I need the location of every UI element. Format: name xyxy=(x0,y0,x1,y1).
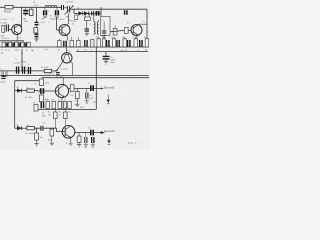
svg-text:C₁₆0,25: C₁₆0,25 xyxy=(60,68,68,70)
capacitor C12 dark xyxy=(23,67,25,74)
svg-text:C₁₂: C₁₂ xyxy=(5,50,8,52)
transistor T5 xyxy=(131,25,142,36)
svg-text:4700: 4700 xyxy=(21,61,27,63)
capacitor under C20 dark xyxy=(41,102,43,108)
svg-text:Б₂₂: Б₂₂ xyxy=(58,99,61,101)
svg-text:R₂120к: R₂120к xyxy=(0,23,7,25)
capacitor C14 dark xyxy=(28,67,30,74)
resistor R29 xyxy=(27,127,35,130)
capacitor chain dark upper xyxy=(35,22,39,24)
svg-text:C₁₃: C₁₃ xyxy=(102,37,105,39)
svg-text:L₆: L₆ xyxy=(1,69,3,71)
resistor R25 xyxy=(75,92,79,99)
wire T5 emitter xyxy=(136,35,139,39)
svg-text:C₄: C₄ xyxy=(49,22,52,24)
capacitor row r7 dark xyxy=(117,40,119,47)
ground C3a xyxy=(43,16,47,17)
wire L1 right down xyxy=(56,7,58,10)
rail 2 xyxy=(76,51,148,53)
svg-text:T₁: T₁ xyxy=(12,19,14,21)
capacitor C16 xyxy=(56,73,60,75)
wire T4 emitter down xyxy=(61,98,63,110)
wire T2 collector up xyxy=(66,13,69,25)
capacitor IF in box xyxy=(102,31,106,33)
resistor detector load xyxy=(84,17,90,20)
ground IF box xyxy=(102,33,106,38)
svg-text:R₃1к: R₃1к xyxy=(2,38,7,40)
wire C17 stub xyxy=(105,52,107,56)
resistor bottom row 2 xyxy=(52,101,56,108)
ground R31 xyxy=(35,140,39,146)
svg-text:5к: 5к xyxy=(59,114,61,116)
capacitor C3a dark xyxy=(44,10,47,15)
paper scan noise xyxy=(0,0,150,150)
svg-text:C₅6÷25: C₅6÷25 xyxy=(66,1,74,4)
svg-text:4,7к: 4,7к xyxy=(34,5,38,7)
transistor T1 xyxy=(12,25,22,35)
svg-text:4,7к: 4,7к xyxy=(75,101,79,103)
resistor R33 xyxy=(50,129,54,136)
capacitor C31 xyxy=(41,126,43,131)
resistor row L4 xyxy=(21,42,24,47)
capacitor C3b dark xyxy=(56,10,59,15)
resistor R31 xyxy=(35,133,39,140)
svg-text:C₅: C₅ xyxy=(7,38,10,40)
capacitor C17 dark xyxy=(103,56,110,59)
capacitor row r11 dark xyxy=(140,40,142,47)
wire T5 base xyxy=(110,30,131,31)
wire T5 collector xyxy=(138,23,147,26)
svg-text:Выход1: Выход1 xyxy=(104,86,115,90)
resistor R7 small xyxy=(75,15,78,20)
resistor R3 xyxy=(30,9,34,15)
svg-text:4,7к: 4,7к xyxy=(44,49,48,51)
resistor bottom row 4 dark xyxy=(63,101,66,108)
wire top rail left xyxy=(0,6,62,8)
svg-text:C₁0,02: C₁0,02 xyxy=(0,19,7,21)
svg-text:мкФ: мкФ xyxy=(110,61,114,64)
ground C33 xyxy=(91,143,95,147)
capacitor row L dark c xyxy=(19,43,20,47)
svg-text:Выход2: Выход2 xyxy=(104,129,115,133)
capacitor C33 dark xyxy=(92,137,94,143)
resistor row r2 xyxy=(91,40,95,47)
wire T3 collector down xyxy=(70,61,73,76)
ground arrow output2 xyxy=(108,138,110,141)
capacitor C32 xyxy=(85,137,87,143)
box left edge xyxy=(14,81,16,129)
svg-text:100к: 100к xyxy=(50,18,55,20)
ground C17 xyxy=(104,59,108,64)
transistor T3 xyxy=(62,53,72,63)
wire R21 to C20 xyxy=(34,90,40,92)
resistor below C20 xyxy=(39,95,43,102)
wire IF winding top xyxy=(93,13,95,21)
svg-text:T₆: T₆ xyxy=(66,143,68,145)
inductor L1 coil xyxy=(45,5,57,7)
svg-text:R₂₂: R₂₂ xyxy=(33,102,36,104)
resistor R23 xyxy=(70,85,74,92)
wire R3 stub xyxy=(30,7,32,9)
wire junction R31 xyxy=(34,128,40,133)
svg-text:10к: 10к xyxy=(48,114,51,116)
svg-text:R₄: R₄ xyxy=(1,50,4,52)
svg-text:R₁₆: R₁₆ xyxy=(122,37,125,39)
capacitor IF left dark xyxy=(85,29,89,31)
arrow output 1 xyxy=(101,88,104,90)
capacitor row r1 dark xyxy=(85,40,87,47)
resistor row r10 xyxy=(134,39,137,47)
bus line 1 xyxy=(0,74,149,76)
svg-text:C₆: C₆ xyxy=(143,21,146,23)
svg-text:15к: 15к xyxy=(39,137,42,139)
svg-text:C₂₆: C₂₆ xyxy=(89,95,92,97)
resistor base T5 inline xyxy=(124,27,128,33)
node dots on emitter rail xyxy=(6,40,7,41)
transistor T6 xyxy=(62,126,75,139)
svg-text:10к: 10к xyxy=(51,99,54,101)
inductor IF winding 1 xyxy=(94,21,95,34)
wire row stubs right xyxy=(99,37,136,39)
svg-text:R₂₉: R₂₉ xyxy=(27,125,30,127)
svg-text:Д₁: Д₁ xyxy=(77,8,79,10)
wire T1 emitter down xyxy=(17,34,18,41)
wire L5 vertical xyxy=(21,49,23,71)
resistor bottom row 5 xyxy=(68,101,71,108)
capacitor C2 dark xyxy=(23,11,28,14)
wire T2 emitter down xyxy=(66,35,67,41)
resistor R1 xyxy=(5,6,13,9)
node junction top xyxy=(21,7,22,8)
wire IF cap left drop xyxy=(86,20,88,28)
svg-text:R₅: R₅ xyxy=(26,50,29,52)
resistor T2 row a xyxy=(58,41,62,48)
capacitor detector dark xyxy=(96,11,98,16)
resistor R30 xyxy=(54,112,58,119)
box top edge xyxy=(15,80,42,82)
resistor row L1 xyxy=(2,42,5,47)
variable capacitor C5 xyxy=(67,6,69,13)
wire detector tap xyxy=(73,9,75,13)
resistor T2 row c xyxy=(77,41,81,48)
svg-text:R₁₇: R₁₇ xyxy=(27,87,30,89)
capacitor C1 xyxy=(6,25,8,32)
wire emitter rail xyxy=(0,40,24,42)
svg-text:L₅: L₅ xyxy=(15,59,17,61)
capacitor T2 row dark xyxy=(64,41,66,47)
svg-text:4700: 4700 xyxy=(110,59,116,61)
ground C26 xyxy=(85,99,89,104)
capacitor C24 dark xyxy=(91,85,93,91)
resistor row r12 xyxy=(145,39,148,47)
capacitor chain dark lower xyxy=(35,34,39,36)
wire T4 collector right xyxy=(69,88,101,90)
svg-text:R₁₃: R₁₃ xyxy=(66,50,69,52)
wire C31 to T6 xyxy=(43,128,65,131)
wire detector line xyxy=(74,12,101,14)
resistor row L5 xyxy=(27,42,30,47)
svg-text:C₈: C₈ xyxy=(102,19,105,21)
svg-text:C₁₆: C₁₆ xyxy=(137,50,140,52)
ground R32 xyxy=(77,142,81,147)
svg-text:C₁₇: C₁₇ xyxy=(110,56,113,58)
svg-text:C₉180: C₉180 xyxy=(14,62,21,64)
svg-text:R₂₉а470к: R₂₉а470к xyxy=(25,133,34,135)
inductor L6 box xyxy=(2,71,7,76)
wire resistor stubs xyxy=(41,94,43,110)
svg-text:R₁₈: R₁₈ xyxy=(126,50,129,52)
svg-text:L₄: L₄ xyxy=(90,23,92,25)
resistor R2 edge xyxy=(2,25,5,32)
diode D2 xyxy=(17,89,21,93)
svg-text:R₁₈510: R₁₈510 xyxy=(45,74,53,76)
svg-text:C₃₄: C₃₄ xyxy=(88,127,91,129)
diode D3 wire xyxy=(15,127,27,129)
varcap arrow xyxy=(65,6,74,15)
resistor R32a xyxy=(64,112,68,119)
svg-text:Д₃: Д₃ xyxy=(17,124,19,126)
capacitor row L dark b xyxy=(13,43,14,47)
resistor R14 xyxy=(44,69,51,72)
svg-text:C₁₁: C₁₁ xyxy=(91,50,94,52)
wire R30 stubs xyxy=(54,109,56,128)
wire T2 base xyxy=(57,29,62,31)
svg-text:R₆: R₆ xyxy=(50,16,53,18)
capacitor C20 dark xyxy=(41,88,44,93)
ground T6 emitter xyxy=(69,144,73,145)
capacitor C26 xyxy=(86,93,88,99)
wire R18 stub xyxy=(41,78,43,79)
resistor row r4 xyxy=(102,39,105,47)
potentiometer arrow xyxy=(53,69,58,74)
inductor IF winding 2 xyxy=(97,21,98,34)
wire chain x36 xyxy=(35,7,37,22)
wire bus vertical x96 xyxy=(95,47,97,109)
resistor row r6 xyxy=(112,39,115,47)
capacitor C13 dark xyxy=(17,67,19,74)
wire T6 collector right xyxy=(75,132,91,134)
wire T4 feed xyxy=(62,78,64,85)
wire C2 stub xyxy=(25,7,27,16)
wire IF box drop xyxy=(100,9,102,16)
resistor R22 xyxy=(34,105,38,111)
svg-text:C₆: C₆ xyxy=(8,50,11,52)
transistor T2 xyxy=(59,25,70,36)
svg-text:1к: 1к xyxy=(145,49,147,51)
capacitor near rail dark xyxy=(125,10,127,15)
ground C32 xyxy=(84,143,88,147)
resistor row r8 xyxy=(123,39,126,47)
capacitor row L dark a xyxy=(6,43,7,47)
svg-text:R₆: R₆ xyxy=(34,2,37,4)
capacitor corner dark xyxy=(1,76,5,78)
wire row stubs xyxy=(59,37,78,41)
svg-text:R₂₄: R₂₄ xyxy=(42,113,45,115)
svg-text:Рис. 3: Рис. 3 xyxy=(127,141,137,145)
diode D3 xyxy=(17,126,21,130)
diode D1a xyxy=(79,12,83,16)
resistor row L3 xyxy=(15,42,18,47)
svg-text:R₃₀: R₃₀ xyxy=(59,112,62,114)
svg-text:R₁₈: R₁₈ xyxy=(35,83,38,85)
capacitor C34 dark xyxy=(91,130,93,136)
svg-text:C₂₄: C₂₄ xyxy=(88,83,91,85)
svg-text:L₁: L₁ xyxy=(48,2,50,4)
wire R25 stub xyxy=(76,89,78,92)
capacitor row r9 dark xyxy=(128,40,130,47)
wire R32 stub xyxy=(78,133,80,136)
wire IF cap stub xyxy=(103,22,105,31)
wire resistor stubs xyxy=(85,13,89,17)
resistor bottom row 3 xyxy=(58,101,62,108)
diode D1b xyxy=(84,12,88,16)
svg-text:R₈100: R₈100 xyxy=(58,19,65,21)
wire T3 emitter diagonal xyxy=(57,61,64,71)
capacitor row L dark d xyxy=(25,43,26,47)
svg-text:1к: 1к xyxy=(64,99,66,101)
wire L1 left down xyxy=(44,7,46,10)
svg-text:1к: 1к xyxy=(77,49,79,51)
svg-text:R₁₅: R₁₅ xyxy=(112,37,115,39)
capacitor detector xyxy=(92,11,94,15)
diode D2 wire xyxy=(15,90,27,92)
wire to varcap xyxy=(64,7,68,9)
svg-text:R₁₉2,2к: R₁₉2,2к xyxy=(57,76,64,78)
svg-text:C₂₈: C₂₈ xyxy=(75,104,78,106)
wire right edge vertical xyxy=(146,9,148,47)
resistor bottom row 1 xyxy=(46,101,50,108)
svg-text:R₂₈: R₂₈ xyxy=(48,112,51,114)
capacitor C4 xyxy=(62,5,64,10)
svg-text:2200: 2200 xyxy=(0,81,6,83)
wire C20 to base xyxy=(44,90,58,92)
arrow output 2 xyxy=(94,132,104,134)
svg-text:C₂: C₂ xyxy=(48,11,51,13)
ground IF left xyxy=(85,31,89,36)
svg-text:R₁₇: R₁₇ xyxy=(144,37,147,39)
svg-text:Cф: Cф xyxy=(100,6,104,9)
resistor R18 xyxy=(39,79,43,86)
wire top rail right xyxy=(70,8,147,10)
capacitor row r5 dark xyxy=(107,40,109,47)
ground C3b xyxy=(55,16,59,17)
resistor row r3 xyxy=(97,39,100,47)
svg-text:R₁0,5к: R₁0,5к xyxy=(4,10,12,13)
wire T6 emitter down xyxy=(69,138,72,144)
wire R32a stubs xyxy=(64,109,66,125)
svg-text:R₃₂: R₃₂ xyxy=(69,111,72,113)
svg-text:R₉4,7к: R₉4,7к xyxy=(70,21,76,23)
resistor R21 xyxy=(27,89,35,92)
component right of IF box xyxy=(113,28,117,35)
svg-text:1к: 1к xyxy=(72,24,74,26)
svg-text:мкФ: мкФ xyxy=(93,100,97,103)
resistor T2 row b xyxy=(70,41,74,48)
ground R33 xyxy=(50,136,54,146)
ground R25 xyxy=(75,99,79,107)
ground arrow output1 xyxy=(107,95,109,100)
ground chain xyxy=(34,37,38,42)
svg-text:R₁₄4,7к: R₁₄4,7к xyxy=(41,67,48,69)
inductor L2 box xyxy=(34,28,38,33)
IF shield box xyxy=(101,17,110,36)
svg-text:C₁₅: C₁₅ xyxy=(133,37,136,39)
svg-text:C₁₄: C₁₄ xyxy=(27,64,30,66)
svg-text:T₅: T₅ xyxy=(127,23,129,25)
wire T1 collector link xyxy=(18,24,21,26)
svg-text:Д₂: Д₂ xyxy=(17,87,19,89)
svg-text:R₂₁120к: R₂₁120к xyxy=(25,97,33,99)
wire T1 collector vertical xyxy=(21,7,23,27)
svg-text:R₁₂: R₁₂ xyxy=(96,37,99,39)
bus line 2 xyxy=(42,77,149,79)
svg-text:R₁₁: R₁₁ xyxy=(58,50,61,52)
transistor T4 xyxy=(55,84,68,97)
wire R14 to pot xyxy=(52,70,58,72)
wire T2 base vertical xyxy=(56,18,58,30)
wire T3 base vertical xyxy=(66,47,68,53)
rail B left xyxy=(0,70,44,72)
resistor row L2 xyxy=(9,42,12,47)
wire T1 base xyxy=(9,29,12,31)
ground line stage1 xyxy=(38,108,96,110)
resistor R32 xyxy=(77,136,81,142)
main rail 1 xyxy=(0,46,148,48)
